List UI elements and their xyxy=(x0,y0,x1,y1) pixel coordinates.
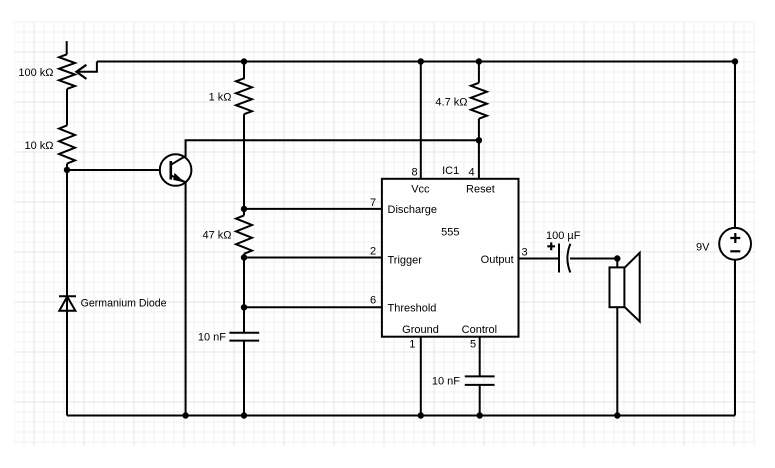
wire: pin 8 vcc from rail xyxy=(420,62,422,179)
wire: C2 to ground rail xyxy=(479,385,481,416)
svg-text:47 kΩ: 47 kΩ xyxy=(202,229,231,241)
wire: pin 2 trigger xyxy=(244,257,382,259)
potentiometer R1 wiper arrow shaft and wire to top rail xyxy=(78,62,97,72)
transistor Q1 collector diagonal xyxy=(171,156,186,165)
svg-text:Control: Control xyxy=(462,324,497,336)
svg-text:10 kΩ: 10 kΩ xyxy=(24,140,53,152)
wire: speaker node down to speaker xyxy=(616,259,618,268)
svg-text:6: 6 xyxy=(370,294,376,306)
wire: right branch top (rail to battery +) xyxy=(734,61,736,228)
IC U1 555 body xyxy=(382,179,519,337)
transistor Q1 emitter arrowhead xyxy=(173,173,185,183)
potentiometer R1 100 kOhm body xyxy=(59,54,75,89)
potentiometer R1 wiper arrowhead xyxy=(76,65,86,79)
svg-text:3: 3 xyxy=(522,247,528,259)
resistor R3 1 kOhm xyxy=(236,62,252,115)
resistor R4 47 kOhm xyxy=(236,215,252,253)
junction node: base tap xyxy=(64,167,70,173)
wire: pin 3 output to C3 xyxy=(519,258,560,260)
speaker LS1 horn xyxy=(624,253,639,322)
wire: bottom ground rail xyxy=(67,415,735,417)
wire: base wire from node to Q1 xyxy=(67,169,160,171)
svg-text:Discharge: Discharge xyxy=(388,204,438,216)
wire: R3 to R4 xyxy=(243,114,245,215)
junction node: top right corner xyxy=(732,58,738,64)
svg-text:8: 8 xyxy=(412,167,418,179)
resistor R2 10 kOhm xyxy=(59,125,75,163)
wire: pot to R2 xyxy=(66,89,68,126)
svg-text:100 µF: 100 µF xyxy=(546,230,581,242)
transistor Q1 emitter diagonal xyxy=(171,175,186,182)
battery V1 minus sign xyxy=(730,250,740,252)
wire: pin 5 control to C2 xyxy=(479,337,481,377)
junction node: pin1 at ground rail xyxy=(418,412,424,418)
svg-text:100 kΩ: 100 kΩ xyxy=(18,67,53,79)
svg-text:Threshold: Threshold xyxy=(388,302,437,314)
capacitor C3 100 uF straight plate xyxy=(558,244,560,273)
resistor R5 4.7 kOhm xyxy=(471,83,487,119)
diode D1 triangle xyxy=(59,297,75,311)
wire: R2 to diode node xyxy=(66,164,68,416)
svg-text:10 nF: 10 nF xyxy=(198,332,226,344)
svg-text:555: 555 xyxy=(441,227,459,239)
junction node: emitter at ground rail xyxy=(182,412,188,418)
wire: speaker to ground rail xyxy=(616,307,618,415)
wire: R4 down to capacitor C1 xyxy=(243,254,245,333)
junction node: discharge tap xyxy=(241,206,247,212)
svg-text:7: 7 xyxy=(370,197,376,209)
capacitor C1 10 nF plates xyxy=(229,333,259,341)
wire: collector up xyxy=(185,140,187,157)
capacitor C2 10 nF plates xyxy=(465,376,495,385)
junction node: 4.7k at top rail xyxy=(476,58,482,64)
junction node: speaker top xyxy=(614,255,620,261)
wire: collector rail to reset node xyxy=(185,139,479,141)
junction node: speaker at ground rail xyxy=(614,412,620,418)
capacitor C3 plus sign xyxy=(547,242,555,250)
battery V1 circle xyxy=(719,228,751,260)
svg-text:4.7 kΩ: 4.7 kΩ xyxy=(435,97,467,109)
wire: right branch bottom (battery - to ground rail) xyxy=(734,260,736,416)
wire: C1 to ground rail xyxy=(243,341,245,416)
svg-text:5: 5 xyxy=(470,338,476,350)
svg-text:2: 2 xyxy=(370,245,376,257)
svg-text:Ground: Ground xyxy=(402,324,439,336)
potentiometer R1 100 kOhm top stub xyxy=(66,41,68,54)
transistor Q1 base bar xyxy=(170,161,173,180)
transistor Q1 circle xyxy=(160,154,192,186)
junction node: C1 at ground rail xyxy=(241,412,247,418)
wire: pin 7 discharge xyxy=(244,208,382,210)
wire: R5 to pin 4 reset xyxy=(478,119,480,179)
svg-text:Germanium Diode: Germanium Diode xyxy=(81,297,167,309)
junction node: threshold tap xyxy=(241,304,247,310)
svg-text:Vcc: Vcc xyxy=(411,184,430,196)
wire: rail to R5 xyxy=(478,62,480,83)
svg-text:Output: Output xyxy=(481,254,514,266)
junction node: C2 at ground rail xyxy=(477,412,483,418)
wire: pin 6 threshold xyxy=(244,306,382,308)
svg-text:4: 4 xyxy=(468,167,474,179)
wire: C3 to speaker node xyxy=(570,258,617,260)
svg-text:10 nF: 10 nF xyxy=(432,375,460,387)
wire: pin 1 ground xyxy=(420,337,422,416)
junction node: trigger tap xyxy=(241,254,247,260)
junction node: 1k at top rail xyxy=(241,58,247,64)
junction node: vcc at top rail xyxy=(418,58,424,64)
svg-text:Trigger: Trigger xyxy=(388,254,423,266)
junction node: reset / collector xyxy=(476,137,482,143)
wire: emitter down to ground rail xyxy=(185,182,187,416)
capacitor C3 100 uF curved plate xyxy=(567,244,570,273)
svg-text:1 kΩ: 1 kΩ xyxy=(209,92,232,104)
speaker LS1 body xyxy=(610,267,625,307)
battery V1 plus sign xyxy=(730,233,740,243)
wire: top supply rail xyxy=(97,61,735,63)
svg-text:9V: 9V xyxy=(696,242,710,254)
diode D1 cathode bar xyxy=(59,295,76,297)
svg-text:1: 1 xyxy=(409,338,415,350)
svg-text:Reset: Reset xyxy=(466,184,495,196)
svg-text:IC1: IC1 xyxy=(442,165,459,177)
